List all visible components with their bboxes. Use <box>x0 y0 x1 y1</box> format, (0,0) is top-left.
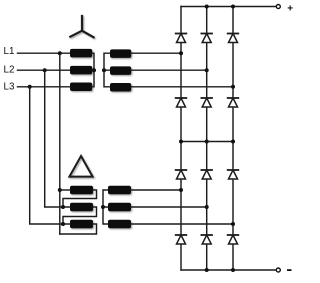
node T2 delta corner 1 <box>58 188 62 192</box>
transformer T2 primary winding 1 <box>70 186 93 195</box>
wire L2 <box>18 69 71 71</box>
transformer T1 primary winding 2 <box>70 66 92 75</box>
node T2 secondary star <box>101 205 105 209</box>
wire bridge leg 1 <box>180 7 182 271</box>
wire T2 winding1 end loop to winding 2 <box>63 190 97 207</box>
node T2 delta corner 2 <box>61 205 65 209</box>
node L2 branch <box>43 68 47 72</box>
node middle rail leg 2 <box>205 140 209 144</box>
star (wye) symbol <box>70 16 93 37</box>
wire T2 winding3 end loop to corner 1 <box>60 224 97 234</box>
wire bridge leg 2 <box>206 7 208 271</box>
svg-text:L3: L3 <box>4 82 15 93</box>
wire T1 phase c to bridge leg 3 <box>131 86 233 88</box>
node bottom rail leg 3 <box>231 268 235 272</box>
node bridge tap lower leg 1 <box>179 188 183 192</box>
transformer T2 primary winding 2 <box>70 203 93 212</box>
wire T2 phase b to bridge leg 2 <box>131 206 207 208</box>
diode D5 <box>201 98 212 107</box>
diode D9 <box>228 170 239 179</box>
diode D3 <box>228 34 239 43</box>
node T2 delta corner 3 <box>61 222 65 226</box>
delta symbol <box>69 156 92 177</box>
wire T1 primary star point <box>92 53 94 87</box>
wire L2 drop to delta <box>45 70 63 207</box>
wire T2 winding2 end loop to winding 3 <box>63 207 97 224</box>
transformer T1 secondary winding 1 <box>110 49 131 58</box>
wire T2 phase a to bridge leg 1 <box>131 189 181 191</box>
wire T2 delta corner 1 to winding 1 <box>60 189 70 191</box>
transformer T1 secondary winding 2 <box>110 66 131 75</box>
svg-text:+: + <box>287 4 293 15</box>
wire negative bottom rail <box>181 269 276 271</box>
transformer T1 primary winding 1 <box>70 49 92 58</box>
diode D10 <box>176 235 187 244</box>
node top rail leg 2 <box>205 5 209 9</box>
terminal positive <box>276 5 280 9</box>
wire L1 <box>18 52 71 54</box>
transformer T2 secondary winding 1 <box>108 186 131 195</box>
transformer T2 primary winding 3 <box>70 220 93 229</box>
node top rail leg 3 <box>231 5 235 9</box>
node middle rail leg 1 <box>179 140 183 144</box>
transformer T2 secondary winding 2 <box>108 203 131 212</box>
wire positive top rail <box>181 6 276 8</box>
node bridge tap upper leg 2 <box>205 68 209 72</box>
svg-text:L2: L2 <box>4 65 15 76</box>
diode D12 <box>228 235 239 244</box>
wire T2 phase c to bridge leg 3 <box>131 223 233 225</box>
wire bridge leg 3 <box>232 7 234 271</box>
diode D1 <box>176 34 187 43</box>
transformer T1 secondary winding 3 <box>110 83 131 92</box>
diode D4 <box>176 98 187 107</box>
node bridge tap lower leg 2 <box>205 205 209 209</box>
node middle rail leg 3 <box>231 140 235 144</box>
diode D2 <box>201 34 212 43</box>
label minus <box>287 269 292 271</box>
node bridge tap lower leg 3 <box>231 222 235 226</box>
node T1 secondary star <box>102 68 106 72</box>
wire middle rail <box>181 141 233 143</box>
node bridge tap upper leg 3 <box>231 85 235 89</box>
diode D11 <box>201 235 212 244</box>
wire T1 secondary star point <box>104 53 110 87</box>
transformer T1 primary winding 3 <box>70 83 92 92</box>
wire L1 drop to delta <box>59 53 61 234</box>
terminal negative <box>276 268 280 272</box>
wire T1 phase b to bridge leg 2 <box>131 69 207 71</box>
diode D7 <box>176 170 187 179</box>
diode D8 <box>201 170 212 179</box>
wire T1 phase a to bridge leg 1 <box>131 52 181 54</box>
node L1 branch <box>58 51 62 55</box>
node T1 primary star <box>92 68 96 72</box>
node L3 branch <box>28 85 32 89</box>
transformer T2 secondary winding 3 <box>108 220 131 229</box>
wire L3 <box>18 86 71 88</box>
wire L3 drop to delta <box>30 87 63 224</box>
node bridge tap upper leg 1 <box>179 51 183 55</box>
diode D6 <box>228 98 239 107</box>
svg-text:L1: L1 <box>4 46 15 57</box>
wire T2 secondary star point <box>103 190 108 224</box>
node bottom rail leg 2 <box>205 268 209 272</box>
